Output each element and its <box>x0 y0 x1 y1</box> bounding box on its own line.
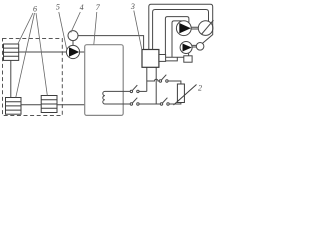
control box 3 <box>142 50 159 68</box>
pump P0 <box>66 45 79 58</box>
wire sensor link <box>72 41 74 46</box>
svg-text:6: 6 <box>33 4 37 13</box>
wire row3 to resistor top <box>168 81 181 84</box>
wire sensor to control box <box>78 36 144 50</box>
loop wire L1 <box>149 4 213 49</box>
wire row2 to resistor bottom <box>169 103 181 105</box>
label 5 with leader <box>56 3 67 49</box>
coupling P1-C1 <box>191 27 198 29</box>
wire pipe E3 to tank <box>57 104 85 106</box>
contact K2 <box>130 98 139 106</box>
wire pump to tank <box>80 51 85 53</box>
motor C2 <box>196 43 204 51</box>
wire row2 middle <box>139 103 160 105</box>
heater block E3 <box>41 96 57 113</box>
wire row3 with hop <box>147 79 159 81</box>
contact K1 <box>130 85 139 93</box>
wire coil row1 <box>107 90 130 92</box>
wire E1 to E2 <box>10 60 12 97</box>
relay box <box>184 53 192 62</box>
wire control box drop 1 <box>146 67 148 91</box>
pump P1 <box>176 21 191 36</box>
label 4 with leader <box>71 3 84 33</box>
svg-text:2: 2 <box>198 84 202 93</box>
terminal box <box>159 55 166 62</box>
wire control box drop 2 <box>155 67 157 104</box>
wire appendage lower branch <box>166 57 178 61</box>
wire pipe E2 to E3 <box>21 104 41 106</box>
fan C1 <box>198 21 213 36</box>
label 7 with leader <box>94 3 101 44</box>
svg-text:5: 5 <box>56 3 60 12</box>
wire pipe E1 to pump <box>19 51 67 53</box>
dashed enclosure boundary <box>3 39 63 116</box>
pump P2 <box>180 42 192 54</box>
contact K3 <box>159 75 168 83</box>
label 3 with leader <box>130 2 142 49</box>
resistor 2 <box>174 84 197 105</box>
fan blade line <box>201 20 213 34</box>
wire coil row2 <box>107 103 130 105</box>
loop wire L2 <box>153 10 209 50</box>
svg-text:4: 4 <box>80 3 84 12</box>
contact K4 <box>160 98 169 106</box>
svg-text:7: 7 <box>96 3 101 12</box>
sensor circle 4 <box>68 31 78 41</box>
svg-text:3: 3 <box>130 2 135 11</box>
wire row1 to node <box>139 90 147 92</box>
heater block E2 <box>6 98 22 115</box>
wire appendage to relay <box>166 56 184 58</box>
label 6 with leaders <box>16 4 48 97</box>
loop wire L3 <box>165 17 189 55</box>
coupling P2-C2 <box>192 45 196 47</box>
loop wire L4 <box>172 21 182 57</box>
heater block E1 <box>4 44 19 60</box>
tank 7 <box>85 45 124 116</box>
heat exchanger coil <box>103 91 107 104</box>
